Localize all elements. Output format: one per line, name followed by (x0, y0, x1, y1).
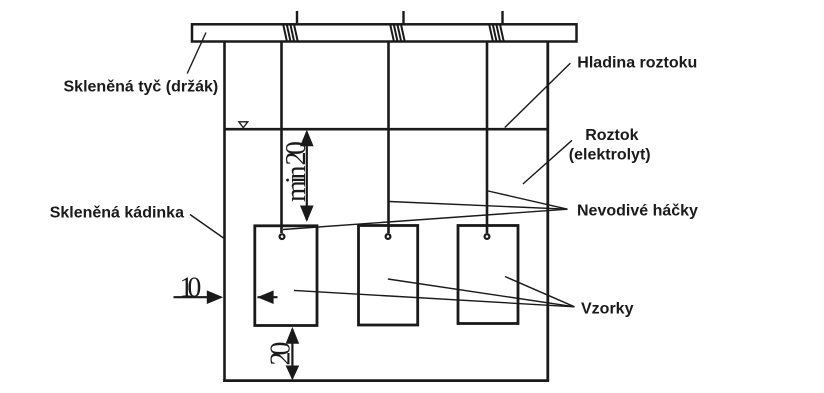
svg-text:10: 10 (179, 273, 201, 304)
svg-text:Roztok: Roztok (585, 127, 638, 144)
svg-text:Hladina roztoku: Hladina roztoku (577, 55, 697, 72)
svg-text:Nevodivé háčky: Nevodivé háčky (577, 203, 698, 220)
svg-text:min 20: min 20 (281, 141, 312, 202)
svg-text:Skleněná tyč (držák): Skleněná tyč (držák) (64, 78, 219, 95)
svg-text:Skleněná kádinka: Skleněná kádinka (50, 205, 184, 222)
svg-text:20: 20 (265, 342, 296, 366)
svg-text:Vzorky: Vzorky (581, 301, 634, 318)
svg-text:(elektrolyt): (elektrolyt) (569, 147, 651, 164)
